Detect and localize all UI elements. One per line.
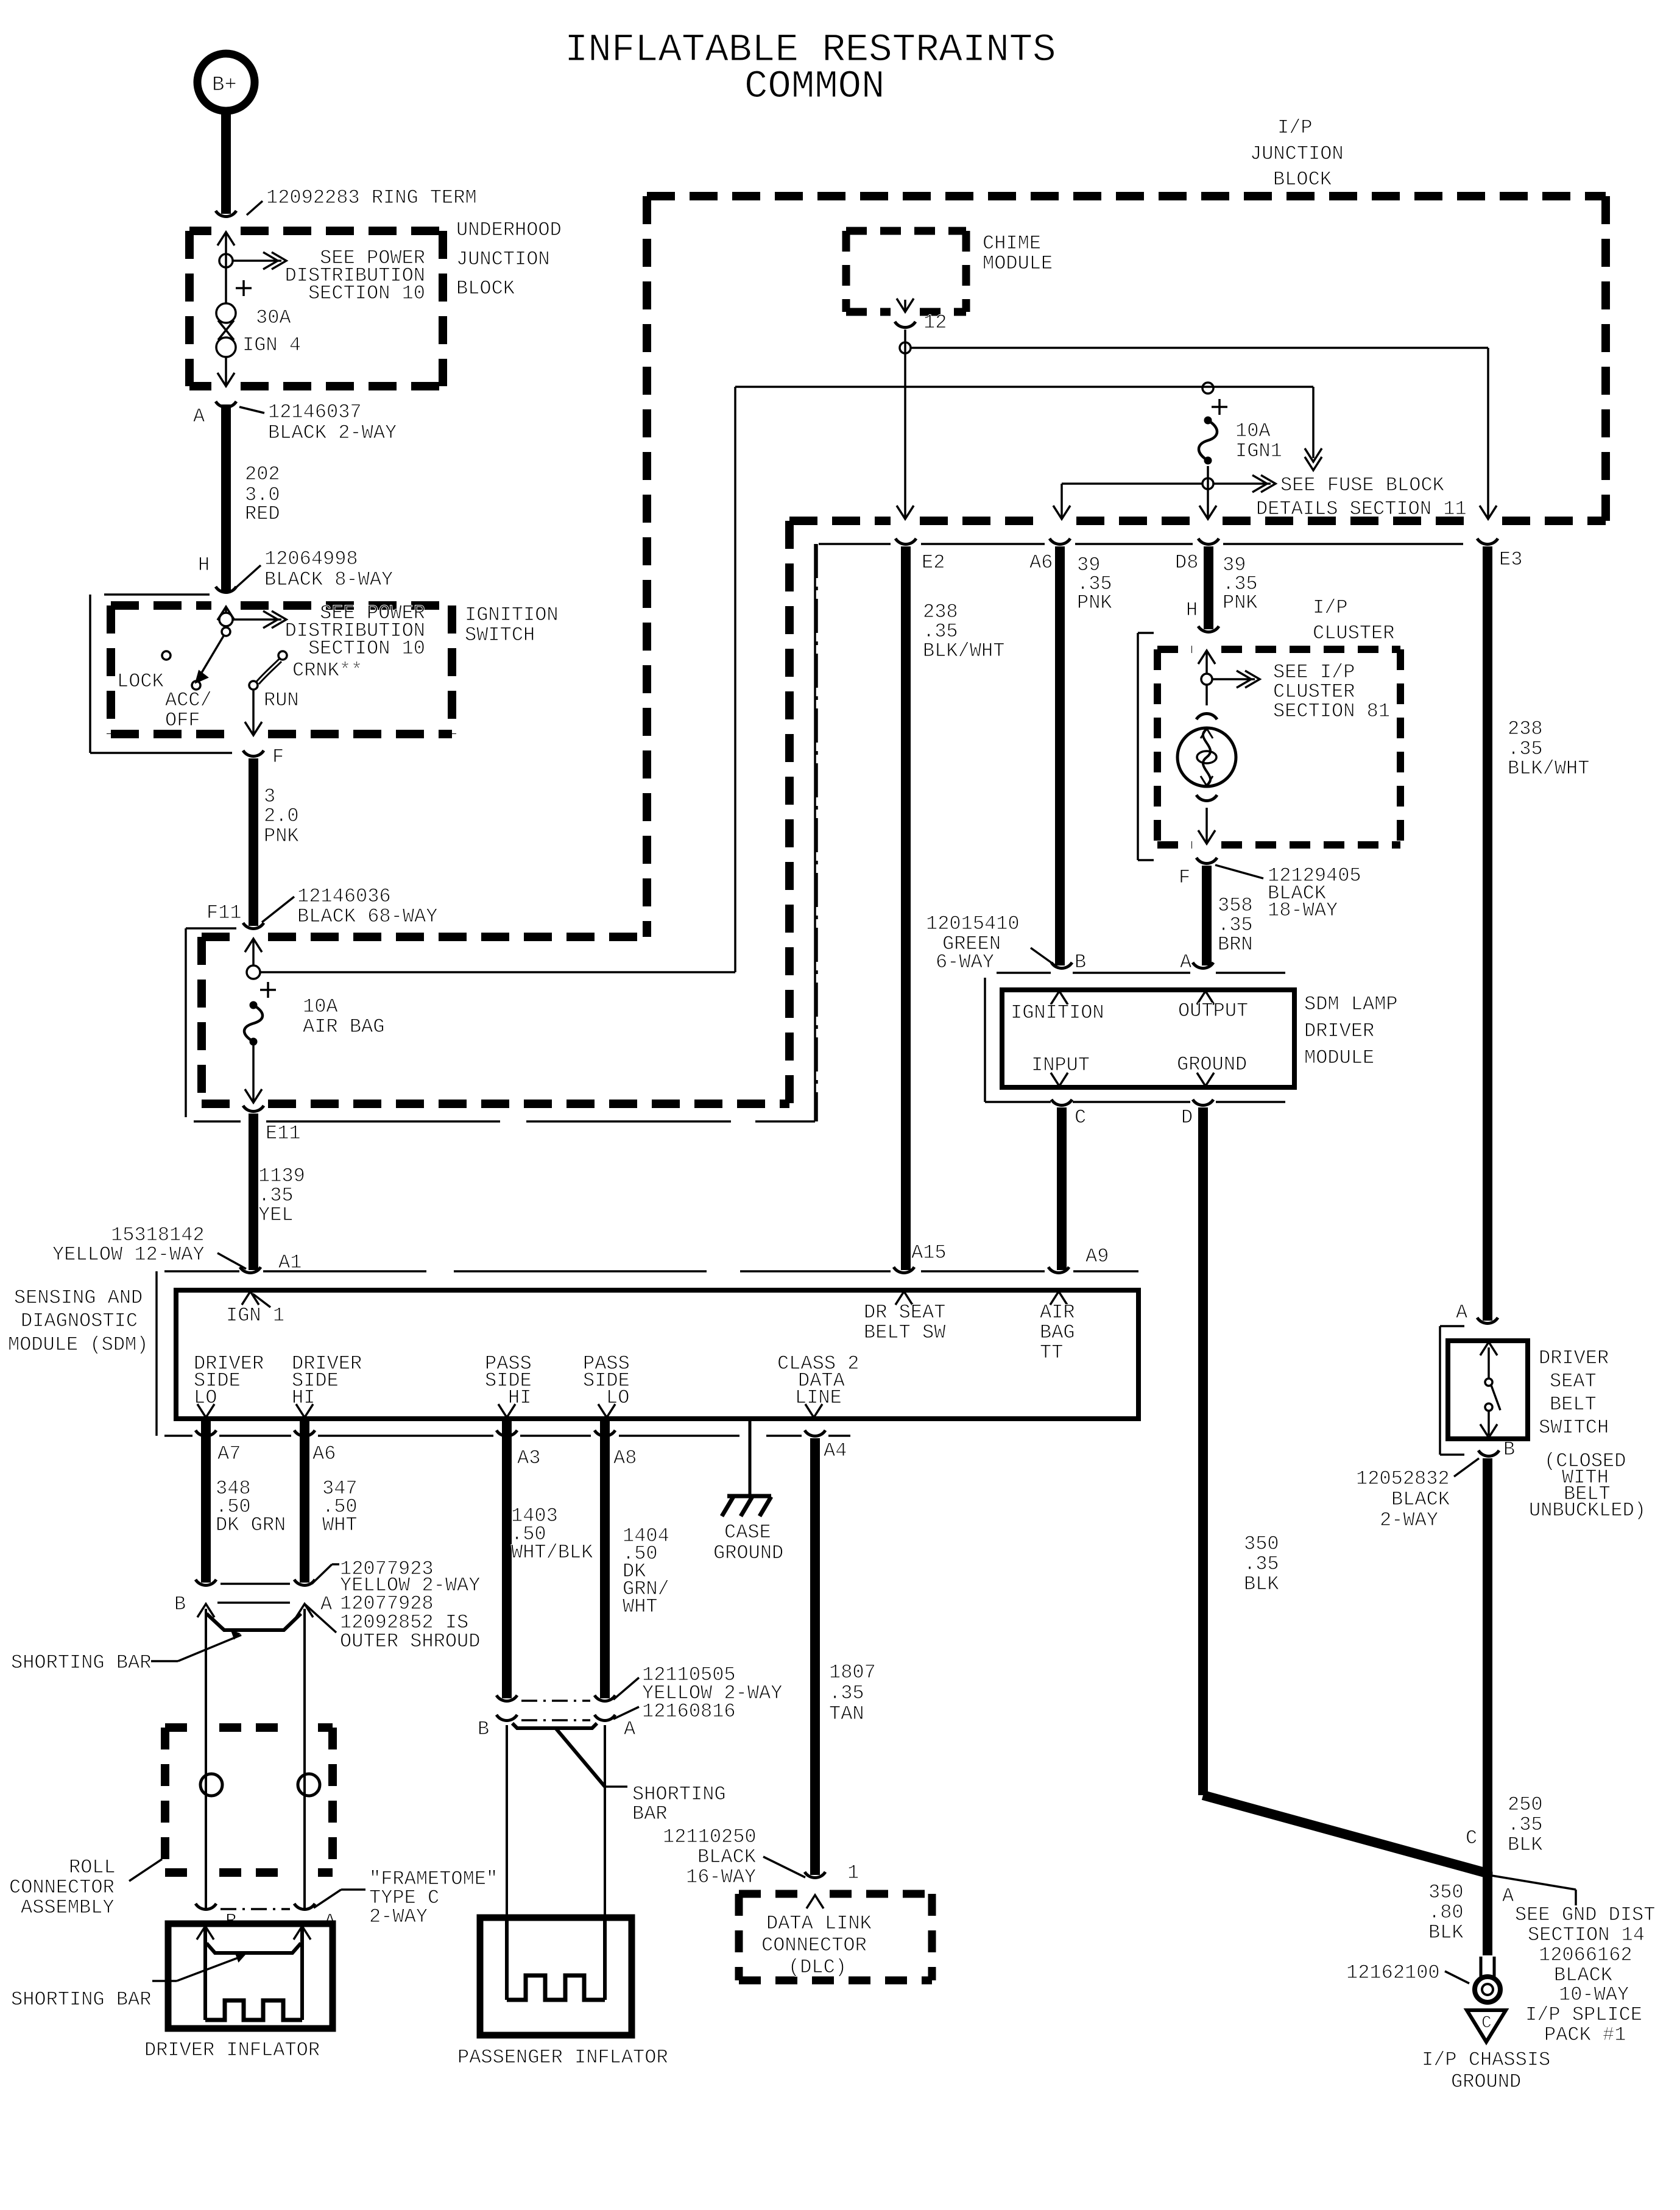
svg-text:DRIVER: DRIVER <box>1539 1347 1609 1369</box>
svg-text:COMMON: COMMON <box>744 65 884 109</box>
svg-text:AIR BAG: AIR BAG <box>303 1015 384 1038</box>
svg-text:TT: TT <box>1040 1341 1063 1364</box>
svg-text:E11: E11 <box>266 1122 301 1145</box>
svg-text:E2: E2 <box>922 551 945 574</box>
svg-text:WHT/BLK: WHT/BLK <box>511 1541 593 1564</box>
svg-text:BAR: BAR <box>632 1802 668 1825</box>
svg-text:12015410: 12015410 <box>926 913 1020 935</box>
svg-text:D8: D8 <box>1175 551 1198 574</box>
svg-text:12146036: 12146036 <box>297 885 391 908</box>
svg-text:SECTION 14: SECTION 14 <box>1528 1924 1645 1946</box>
svg-text:BRN: BRN <box>1218 933 1253 956</box>
svg-text:MODULE (SDM): MODULE (SDM) <box>8 1333 148 1356</box>
svg-text:OUTPUT: OUTPUT <box>1178 1000 1248 1022</box>
svg-text:E3: E3 <box>1499 548 1522 571</box>
svg-text:30A: 30A <box>256 306 291 329</box>
svg-text:BLK: BLK <box>1244 1573 1279 1595</box>
svg-text:10A: 10A <box>1235 420 1271 442</box>
svg-text:SECTION 10: SECTION 10 <box>308 637 425 660</box>
svg-text:A: A <box>1180 951 1192 973</box>
svg-text:CONNECTOR: CONNECTOR <box>9 1876 115 1899</box>
svg-text:F11: F11 <box>206 902 242 924</box>
svg-text:1807: 1807 <box>829 1661 876 1684</box>
svg-text:1: 1 <box>847 1862 859 1884</box>
svg-text:DETAILS SECTION 11: DETAILS SECTION 11 <box>1256 498 1467 520</box>
svg-text:BLACK: BLACK <box>1391 1488 1450 1511</box>
svg-text:BLACK: BLACK <box>697 1846 757 1868</box>
svg-text:12162100: 12162100 <box>1346 1961 1440 1984</box>
svg-text:.35: .35 <box>829 1682 864 1704</box>
svg-text:SHORTING BAR: SHORTING BAR <box>11 1651 151 1674</box>
svg-text:CASE: CASE <box>724 1521 771 1544</box>
svg-text:12110250: 12110250 <box>663 1826 757 1848</box>
svg-text:2.0: 2.0 <box>264 805 299 827</box>
svg-text:LINE: LINE <box>795 1386 842 1409</box>
svg-text:I/P CHASSIS: I/P CHASSIS <box>1422 2049 1550 2071</box>
svg-text:UNDERHOOD: UNDERHOOD <box>456 219 562 241</box>
svg-text:DR SEAT: DR SEAT <box>864 1301 945 1324</box>
svg-text:12: 12 <box>923 311 947 334</box>
svg-text:A3: A3 <box>517 1447 540 1469</box>
svg-text:A6: A6 <box>312 1442 336 1465</box>
svg-text:PACK #1: PACK #1 <box>1544 2024 1626 2046</box>
svg-text:IGN 1: IGN 1 <box>226 1304 284 1327</box>
svg-text:PNK: PNK <box>1223 591 1258 614</box>
svg-text:BLOCK: BLOCK <box>1273 168 1332 191</box>
svg-text:CRNK**: CRNK** <box>292 659 362 682</box>
svg-text:16-WAY: 16-WAY <box>686 1866 756 1888</box>
svg-text:A: A <box>624 1718 636 1740</box>
svg-text:BLOCK: BLOCK <box>456 277 515 300</box>
svg-text:BLK/WHT: BLK/WHT <box>1508 757 1589 780</box>
svg-text:F: F <box>1179 866 1190 889</box>
svg-text:350: 350 <box>1428 1881 1464 1904</box>
svg-text:202: 202 <box>245 463 280 485</box>
svg-text:WHT: WHT <box>623 1595 658 1618</box>
svg-text:.80: .80 <box>1428 1901 1464 1924</box>
svg-text:LO: LO <box>606 1386 629 1409</box>
svg-text:A: A <box>1502 1885 1514 1907</box>
svg-text:BLACK 68-WAY: BLACK 68-WAY <box>297 905 437 928</box>
svg-text:18-WAY: 18-WAY <box>1268 899 1338 922</box>
svg-text:GROUND: GROUND <box>713 1542 783 1564</box>
svg-text:CLUSTER: CLUSTER <box>1313 622 1394 644</box>
svg-text:I/P SPLICE: I/P SPLICE <box>1525 2003 1642 2026</box>
svg-text:OFF: OFF <box>165 709 200 732</box>
svg-text:H: H <box>1186 599 1198 621</box>
svg-text:C: C <box>1481 2014 1492 2033</box>
svg-text:12160816: 12160816 <box>642 1700 736 1723</box>
svg-text:PNK: PNK <box>264 825 299 847</box>
svg-text:DIAGNOSTIC: DIAGNOSTIC <box>21 1310 138 1332</box>
svg-text:SEAT: SEAT <box>1550 1370 1597 1393</box>
svg-text:BAG: BAG <box>1040 1321 1075 1344</box>
svg-text:A9: A9 <box>1085 1245 1109 1268</box>
svg-text:C: C <box>1466 1827 1477 1849</box>
svg-text:350: 350 <box>1244 1533 1279 1555</box>
svg-text:.35: .35 <box>1244 1553 1279 1575</box>
svg-text:IGN1: IGN1 <box>1235 440 1282 462</box>
svg-text:SWITCH: SWITCH <box>1539 1416 1609 1439</box>
svg-text:DK GRN: DK GRN <box>216 1514 286 1536</box>
svg-text:B: B <box>174 1593 186 1615</box>
svg-text:BLK: BLK <box>1508 1834 1543 1856</box>
svg-text:TAN: TAN <box>829 1703 864 1725</box>
svg-text:MODULE: MODULE <box>1304 1047 1374 1069</box>
svg-text:DRIVER INFLATOR: DRIVER INFLATOR <box>144 2039 320 2061</box>
svg-text:A7: A7 <box>217 1442 241 1465</box>
svg-text:IGN 4: IGN 4 <box>242 334 301 356</box>
svg-text:B: B <box>1503 1438 1515 1461</box>
svg-text:I/P: I/P <box>1313 596 1348 619</box>
svg-text:DRIVER: DRIVER <box>1304 1020 1374 1042</box>
svg-text:C: C <box>1075 1106 1086 1129</box>
svg-text:A: A <box>1456 1301 1468 1324</box>
svg-text:BLACK 2-WAY: BLACK 2-WAY <box>268 422 397 444</box>
svg-text:I/P: I/P <box>1277 116 1313 139</box>
svg-text:IGNITION: IGNITION <box>465 604 559 626</box>
svg-text:BELT SW: BELT SW <box>864 1321 946 1344</box>
svg-text:250: 250 <box>1508 1793 1543 1816</box>
svg-text:DATA LINK: DATA LINK <box>766 1912 872 1935</box>
svg-text:BELT: BELT <box>1550 1393 1597 1416</box>
svg-text:RUN: RUN <box>264 689 299 711</box>
svg-text:PASSENGER INFLATOR: PASSENGER INFLATOR <box>457 2046 668 2069</box>
svg-text:SEE FUSE BLOCK: SEE FUSE BLOCK <box>1280 474 1445 496</box>
svg-text:BLK/WHT: BLK/WHT <box>923 640 1004 662</box>
svg-text:ASSEMBLY: ASSEMBLY <box>21 1896 115 1919</box>
svg-text:B: B <box>1075 951 1086 973</box>
svg-text:HI: HI <box>508 1386 531 1409</box>
svg-text:A15: A15 <box>911 1241 947 1264</box>
svg-text:F: F <box>272 746 284 768</box>
svg-text:12066162: 12066162 <box>1539 1944 1632 1966</box>
svg-text:SECTION 10: SECTION 10 <box>308 282 425 305</box>
svg-text:A4: A4 <box>824 1439 847 1462</box>
svg-text:D: D <box>1181 1106 1193 1129</box>
svg-text:B: B <box>478 1718 489 1740</box>
svg-text:OUTER SHROUD: OUTER SHROUD <box>340 1630 480 1653</box>
svg-text:12146037: 12146037 <box>268 401 362 423</box>
svg-text:238: 238 <box>1508 718 1543 740</box>
svg-text:A8: A8 <box>613 1447 637 1469</box>
svg-text:INPUT: INPUT <box>1031 1054 1090 1076</box>
svg-text:BLK: BLK <box>1428 1921 1464 1944</box>
svg-text:BLACK 8-WAY: BLACK 8-WAY <box>264 568 393 591</box>
svg-text:AIR: AIR <box>1040 1301 1075 1324</box>
svg-text:JUNCTION: JUNCTION <box>1250 143 1344 165</box>
svg-text:SECTION 81: SECTION 81 <box>1273 700 1390 722</box>
svg-text:12064998: 12064998 <box>264 548 358 570</box>
svg-text:.35: .35 <box>1508 1813 1543 1836</box>
svg-text:10-WAY: 10-WAY <box>1559 1983 1629 2006</box>
svg-text:A: A <box>193 405 205 428</box>
svg-text:H: H <box>198 554 210 576</box>
svg-text:2-WAY: 2-WAY <box>369 1905 428 1928</box>
svg-text:IGNITION: IGNITION <box>1011 1001 1104 1024</box>
svg-text:PNK: PNK <box>1077 591 1112 614</box>
svg-text:JUNCTION: JUNCTION <box>456 248 550 270</box>
svg-text:YEL: YEL <box>258 1204 294 1226</box>
svg-text:GROUND: GROUND <box>1451 2071 1521 2093</box>
svg-text:B+: B+ <box>212 74 237 97</box>
svg-text:SENSING AND: SENSING AND <box>14 1287 143 1309</box>
svg-text:6-WAY: 6-WAY <box>936 951 994 973</box>
svg-text:SEE GND DIST: SEE GND DIST <box>1515 1904 1655 1926</box>
svg-text:YELLOW 12-WAY: YELLOW 12-WAY <box>52 1243 205 1266</box>
svg-text:ACC/: ACC/ <box>165 689 212 711</box>
svg-text:12052832: 12052832 <box>1356 1467 1450 1490</box>
svg-text:CHIME: CHIME <box>983 232 1041 255</box>
svg-text:GROUND: GROUND <box>1177 1053 1247 1076</box>
svg-text:SWITCH: SWITCH <box>465 624 535 646</box>
svg-text:ROLL: ROLL <box>69 1856 116 1879</box>
svg-text:MODULE: MODULE <box>983 252 1053 275</box>
svg-text:A: A <box>320 1593 333 1615</box>
svg-text:12092283 RING TERM: 12092283 RING TERM <box>266 186 477 209</box>
svg-text:10A: 10A <box>303 995 338 1018</box>
svg-text:UNBUCKLED): UNBUCKLED) <box>1529 1499 1646 1522</box>
svg-text:WHT: WHT <box>322 1514 358 1536</box>
svg-text:SHORTING BAR: SHORTING BAR <box>11 1988 151 2011</box>
svg-text:(DLC): (DLC) <box>788 1956 847 1979</box>
svg-text:SDM LAMP: SDM LAMP <box>1304 993 1398 1015</box>
svg-text:A6: A6 <box>1029 551 1053 574</box>
svg-text:CONNECTOR: CONNECTOR <box>761 1934 867 1957</box>
svg-text:2-WAY: 2-WAY <box>1380 1509 1438 1531</box>
svg-text:RED: RED <box>245 503 280 525</box>
svg-text:LOCK: LOCK <box>117 670 164 693</box>
